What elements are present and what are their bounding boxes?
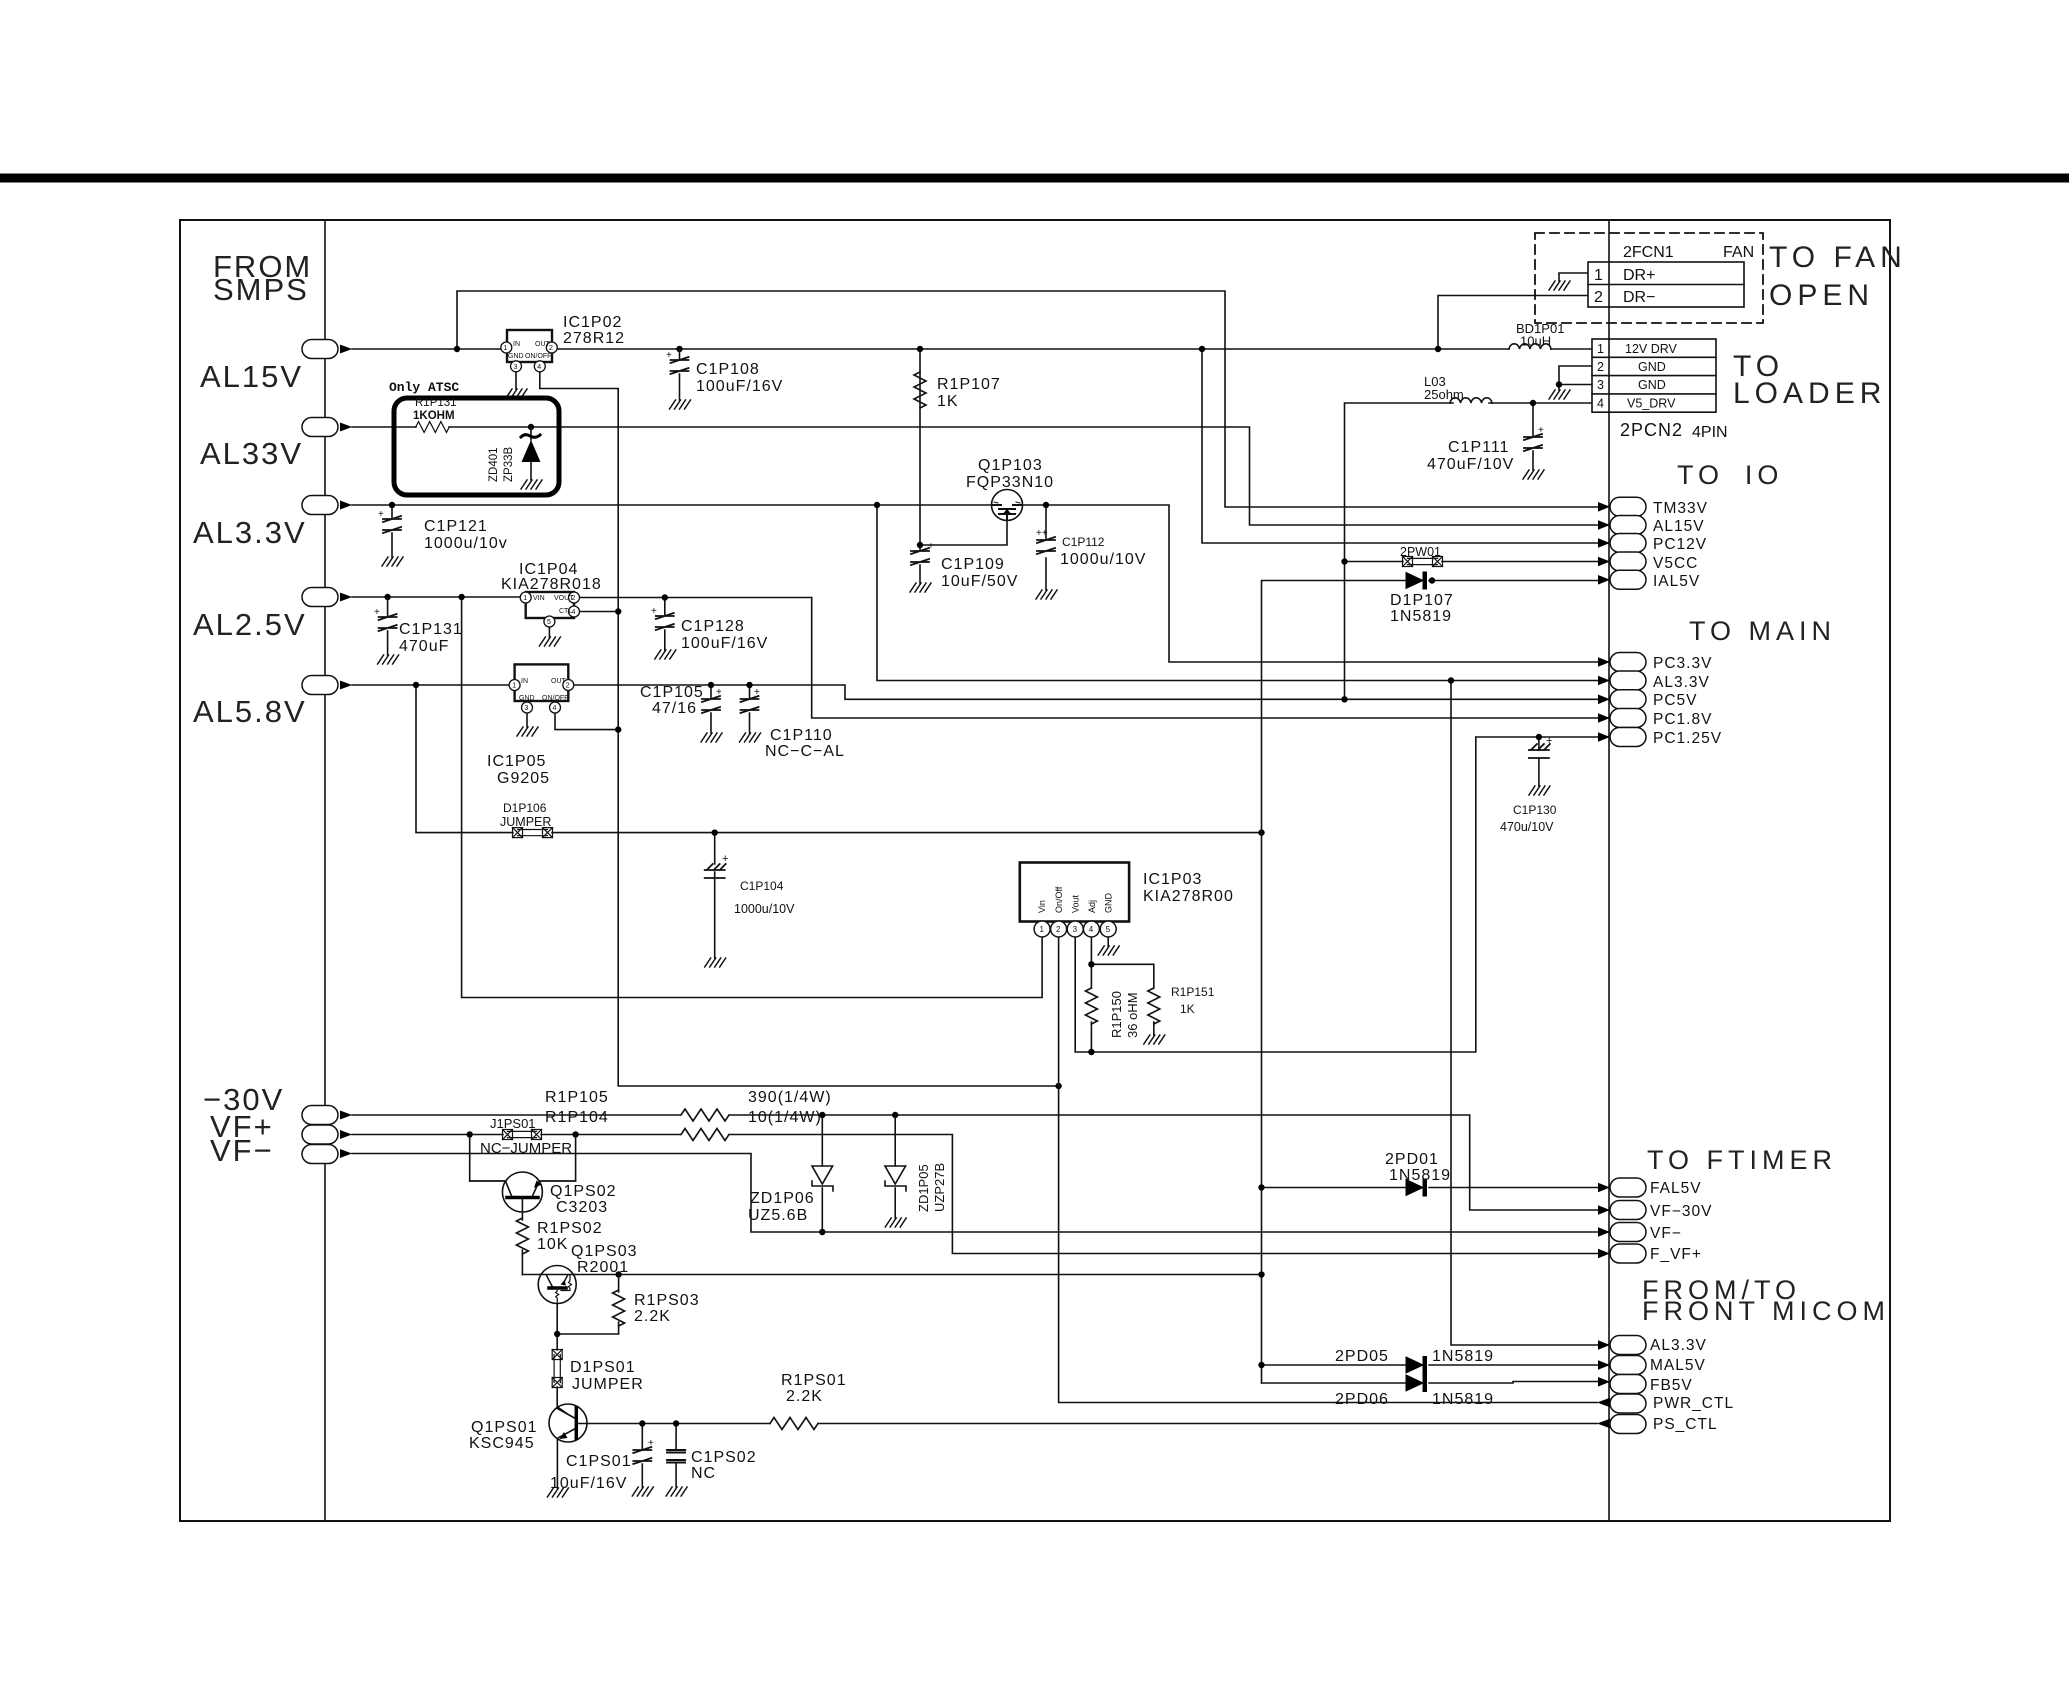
svg-text:ZD1P05: ZD1P05	[916, 1164, 931, 1212]
wire AL3.3V rail	[352, 349, 1598, 1345]
resistor R1PS02	[516, 1218, 528, 1254]
label IC1P04	[501, 561, 602, 593]
ground C1P105	[701, 733, 722, 742]
connector PC3.3V oval	[1598, 653, 1712, 673]
svg-text:JUMPER: JUMPER	[500, 815, 551, 829]
svg-text:PC3.3V: PC3.3V	[1653, 655, 1712, 672]
svg-text:C3203: C3203	[556, 1199, 608, 1216]
svg-text:+: +	[374, 607, 380, 618]
svg-text:1: 1	[504, 345, 508, 352]
svg-text:R1P104: R1P104	[545, 1109, 609, 1126]
svg-text:2PD01: 2PD01	[1385, 1151, 1439, 1168]
connector PWR_CTL oval	[1597, 1394, 1734, 1413]
ground fan DR+	[1549, 281, 1570, 290]
svg-text:25ohm: 25ohm	[1424, 387, 1464, 402]
svg-text:AL33V: AL33V	[200, 436, 303, 471]
svg-text:2PD06: 2PD06	[1335, 1391, 1389, 1408]
wire Q1PS02 base/emitter	[470, 1135, 576, 1275]
wire 2PD01 FAL5V	[1262, 1187, 1599, 1189]
svg-text:2.2K: 2.2K	[634, 1308, 671, 1325]
svg-text:AL15V: AL15V	[1653, 518, 1705, 535]
label D1P107	[1390, 592, 1454, 625]
wire fan DR+ ground	[1559, 273, 1588, 281]
junction AL3.3V nodes	[389, 502, 395, 508]
label C1P128	[681, 618, 768, 652]
svg-text:47/16: 47/16	[652, 700, 697, 717]
label Q1PS01	[469, 1419, 537, 1452]
capacitor C1P110	[741, 687, 761, 713]
svg-text:UZ5.6B: UZ5.6B	[748, 1207, 808, 1224]
svg-text:R2001: R2001	[577, 1259, 629, 1276]
connector FAL5V oval	[1598, 1178, 1702, 1197]
IC regulator IC1P03	[1020, 863, 1129, 938]
label Only ATSC	[389, 380, 459, 395]
svg-text:GND: GND	[1638, 360, 1666, 374]
svg-text:FAN: FAN	[1723, 244, 1754, 261]
svg-text:5: 5	[1106, 925, 1111, 934]
capacitor C1P130	[1529, 735, 1553, 758]
label R1P131	[413, 397, 457, 422]
junction AL5.8V nodes	[413, 682, 419, 688]
svg-text:D1P106: D1P106	[503, 801, 547, 815]
svg-text:2PD05: 2PD05	[1335, 1348, 1389, 1365]
ground C1P111	[1523, 470, 1544, 479]
connector IAL5V oval	[1598, 570, 1700, 590]
transistor Q1P103 MOSFET	[992, 490, 1023, 521]
svg-text:2FCN1: 2FCN1	[1623, 244, 1674, 261]
resistor R1P104	[681, 1129, 729, 1141]
svg-text:2.2K: 2.2K	[786, 1388, 823, 1405]
wire Q1PS01 collector / PS_CTL	[587, 1424, 1597, 1488]
wire AL2.5V rail	[352, 597, 1598, 998]
svg-text:+: +	[651, 606, 657, 617]
wire ON/OFF control bus	[540, 366, 1059, 1086]
connector AL2.5V oval	[302, 588, 352, 607]
label R1P104	[545, 1109, 822, 1126]
svg-text:UZP27B: UZP27B	[932, 1163, 947, 1212]
svg-text:VF−30V: VF−30V	[1650, 1203, 1712, 1220]
svg-text:DR−: DR−	[1623, 289, 1655, 306]
label ZD401 rotated	[488, 447, 515, 482]
svg-text:4: 4	[553, 705, 557, 712]
title TO IO	[1677, 460, 1783, 490]
label 2PD05	[1335, 1348, 1494, 1365]
svg-text:CTL: CTL	[559, 608, 572, 615]
resistor R1PS03	[613, 1290, 625, 1326]
label L03	[1424, 374, 1464, 402]
rail labels left	[200, 359, 303, 394]
label IC1P02	[563, 314, 625, 347]
svg-text:R1PS01: R1PS01	[781, 1372, 847, 1389]
capacitor C1P104	[705, 853, 729, 878]
svg-text:R1PS03: R1PS03	[634, 1292, 700, 1309]
svg-text:VOUT: VOUT	[554, 595, 574, 602]
connector TM33V oval	[1598, 497, 1708, 517]
wire zener ZD1P06 leads	[821, 1115, 823, 1232]
ground loader GND pins	[1549, 390, 1570, 399]
svg-text:IC1P03: IC1P03	[1143, 871, 1202, 888]
label IC1P05	[487, 753, 550, 787]
connector AL5.8V oval	[302, 676, 352, 695]
svg-text:AL15V: AL15V	[200, 359, 303, 394]
svg-text:AL2.5V: AL2.5V	[193, 607, 307, 642]
ground IC1P03 pin5	[1098, 946, 1119, 955]
fan dashed box	[1535, 233, 1763, 323]
svg-text:1: 1	[512, 683, 516, 690]
svg-text:2PW01: 2PW01	[1400, 545, 1441, 559]
connector AL3.3V micom oval	[1598, 1336, 1707, 1355]
svg-text:+: +	[722, 853, 728, 865]
label R1PS02	[537, 1220, 603, 1253]
label R1PS03	[634, 1292, 700, 1325]
schematic outer border	[180, 220, 1890, 1521]
zener ZD1P06	[812, 1166, 833, 1191]
svg-text:5: 5	[547, 619, 551, 626]
junction control bus nodes	[615, 608, 621, 614]
svg-text:G9205: G9205	[497, 770, 550, 787]
svg-text:IC1P05: IC1P05	[487, 753, 546, 770]
wire IC1P03 pins	[1059, 737, 1598, 1403]
left column divider	[324, 220, 326, 1521]
svg-text:+: +	[378, 509, 384, 520]
svg-text:2: 2	[1597, 360, 1604, 374]
capacitor C1PS02	[667, 1450, 685, 1463]
svg-text:+: +	[716, 687, 722, 698]
connector -30V oval	[302, 1106, 352, 1125]
svg-text:R1P150: R1P150	[1109, 991, 1124, 1038]
capacitor C1PS01	[633, 1438, 654, 1464]
label 2PD06	[1335, 1391, 1494, 1408]
svg-text:VF−: VF−	[210, 1133, 274, 1168]
svg-text:3: 3	[1073, 925, 1078, 934]
svg-text:4: 4	[1089, 925, 1094, 934]
label R1P151	[1171, 985, 1215, 1016]
capacitor C1P111	[1524, 425, 1544, 451]
capacitor C1P131	[374, 607, 397, 631]
label ZD1P06	[748, 1190, 815, 1224]
title TO LOADER	[1733, 350, 1886, 410]
svg-text:+: +	[1546, 735, 1552, 747]
wire 2PD06 FB5V	[1262, 1382, 1599, 1384]
right column divider	[1608, 220, 1610, 1521]
module Only ATSC box	[394, 398, 559, 495]
wire Q1PS03 emitter line	[522, 1274, 1261, 1276]
svg-text:C1P109: C1P109	[941, 556, 1005, 573]
connector V5CC oval	[1598, 552, 1698, 572]
label C1PS02	[691, 1449, 757, 1482]
connector AL33V oval	[302, 418, 352, 437]
svg-text:1: 1	[1040, 925, 1045, 934]
wire AL15V rail	[352, 291, 1598, 543]
svg-text:DR+: DR+	[1623, 267, 1655, 284]
svg-text:IN: IN	[513, 341, 520, 348]
ground Q1PS01 emitter	[547, 1488, 568, 1497]
ground IC1P02 pin3	[506, 389, 527, 398]
svg-text:10(1/4W): 10(1/4W)	[748, 1109, 822, 1126]
svg-text:KSC945: KSC945	[469, 1435, 535, 1452]
junction V5 nodes	[1341, 696, 1347, 702]
svg-text:GND: GND	[519, 695, 535, 702]
label 2FCN1 / FAN	[1623, 244, 1754, 261]
title TO MAIN	[1689, 616, 1836, 646]
label 2PD01	[1385, 1151, 1451, 1184]
svg-text:SMPS: SMPS	[213, 272, 309, 307]
wire VF- rail	[352, 1154, 1598, 1233]
ground C1P110	[740, 733, 761, 742]
capacitor C1P121	[378, 509, 401, 533]
resistor R1PS01	[770, 1418, 818, 1430]
ground C1PS02	[666, 1487, 687, 1496]
svg-text:470uF: 470uF	[399, 638, 449, 655]
svg-text:2: 2	[1056, 925, 1061, 934]
svg-text:2PCN2: 2PCN2	[1620, 420, 1683, 440]
svg-text:10uF/16V: 10uF/16V	[550, 1475, 627, 1492]
svg-text:Q1P103: Q1P103	[978, 457, 1043, 474]
top black divider bar	[0, 174, 2069, 183]
resistor R1P105	[681, 1109, 729, 1121]
title TO FAN OPEN	[1769, 241, 1907, 312]
label IC1P03	[1143, 871, 1234, 905]
label fan pins	[1594, 267, 1655, 306]
wire IAL5V bus	[1262, 581, 1599, 1384]
fuse 2PW01	[1403, 557, 1443, 567]
ground C1P108	[670, 400, 691, 409]
transistor Q1PS03	[538, 1266, 576, 1304]
svg-text:1000u/10v: 1000u/10v	[424, 535, 508, 552]
label C1P105	[640, 684, 704, 717]
svg-text:1K: 1K	[1180, 1002, 1195, 1016]
ground C1P121	[382, 557, 403, 566]
label C1P130	[1500, 803, 1557, 834]
wire Q1PS01 emitter gnd	[556, 1438, 558, 1488]
svg-text:470uF/10V: 470uF/10V	[1427, 456, 1514, 473]
connector PC1.25V oval	[1598, 728, 1722, 748]
svg-text:D1P107: D1P107	[1390, 592, 1454, 609]
svg-text:ZD1P06: ZD1P06	[750, 1190, 815, 1207]
svg-text:FB5V: FB5V	[1650, 1377, 1693, 1394]
svg-text:1: 1	[523, 595, 527, 602]
ground C1P128	[655, 650, 676, 659]
connector FB5V oval	[1598, 1375, 1693, 1395]
svg-text:PC1.25V: PC1.25V	[1653, 730, 1722, 747]
connector VF- oval	[1598, 1223, 1682, 1243]
capacitor C1P112	[1036, 528, 1055, 554]
connector PC5V oval	[1598, 690, 1698, 709]
svg-text:1N5819: 1N5819	[1432, 1348, 1494, 1365]
svg-text:Only ATSC: Only ATSC	[389, 380, 459, 395]
wire AL5.8V rail	[352, 685, 1598, 958]
svg-text:AL5.8V: AL5.8V	[193, 694, 307, 729]
svg-text:+: +	[928, 541, 934, 552]
jumper J1PS01	[503, 1130, 542, 1140]
svg-text:VIN: VIN	[533, 595, 545, 602]
zener ZD401	[521, 427, 541, 480]
connector PC1.8V oval	[1598, 709, 1712, 729]
svg-text:ZD401: ZD401	[488, 447, 500, 482]
wire IC1P02 gnd pin	[515, 372, 517, 389]
svg-text:ZP33B: ZP33B	[503, 447, 515, 482]
svg-text:Vout: Vout	[1071, 894, 1081, 913]
svg-text:1KOHM: 1KOHM	[413, 410, 455, 422]
svg-text:PC1.8V: PC1.8V	[1653, 711, 1712, 728]
svg-text:Q1PS03: Q1PS03	[571, 1243, 637, 1260]
connector VF- oval	[302, 1145, 352, 1164]
svg-text:NC: NC	[691, 1465, 716, 1482]
wire zener ZD1P05 leads	[894, 1115, 896, 1218]
svg-text:++: ++	[1036, 528, 1048, 539]
ground C1P112	[1036, 590, 1057, 599]
zener ZD1P05	[885, 1166, 906, 1191]
svg-text:C1PS02: C1PS02	[691, 1449, 757, 1466]
svg-text:R1P107: R1P107	[937, 376, 1001, 393]
wire V5 loader net	[1345, 403, 1599, 699]
svg-text:PWR_CTL: PWR_CTL	[1653, 1395, 1734, 1412]
resistor R1P150	[1085, 988, 1097, 1024]
wire 2PD05 MAL5V	[1262, 1364, 1599, 1366]
svg-text:10uH: 10uH	[1520, 334, 1551, 349]
svg-text:278R12: 278R12	[563, 330, 625, 347]
label FROM SMPS	[213, 249, 312, 307]
capacitor C1P128	[651, 606, 674, 630]
svg-text:TM33V: TM33V	[1653, 500, 1708, 517]
ground ZD1P05	[885, 1218, 906, 1227]
svg-text:IN: IN	[521, 678, 528, 685]
svg-text:R1P131: R1P131	[415, 397, 457, 409]
ground C1P130	[1529, 786, 1550, 795]
IC regulator IC1P02	[501, 330, 558, 372]
svg-text:470u/10V: 470u/10V	[1500, 820, 1554, 834]
label 2PW01	[1400, 545, 1441, 559]
svg-text:Q1PS01: Q1PS01	[471, 1419, 537, 1436]
ground ZD401	[521, 480, 542, 489]
svg-text:F_VF+: F_VF+	[1650, 1246, 1702, 1263]
diode 2PD05	[1406, 1357, 1427, 1374]
label C1P112	[1060, 535, 1146, 568]
ground R1P151	[1144, 1035, 1165, 1044]
connector F_VF+ oval	[1598, 1244, 1702, 1263]
svg-text:1N5819: 1N5819	[1390, 608, 1452, 625]
resistor R1P151	[1148, 988, 1160, 1024]
svg-text:10K: 10K	[537, 1236, 568, 1253]
connector PS_CTL oval	[1597, 1415, 1718, 1434]
svg-text:NC−JUMPER: NC−JUMPER	[480, 1140, 572, 1157]
ground IC1P05 pin3	[517, 727, 538, 736]
inductor L03	[1450, 398, 1492, 403]
svg-text:Adj: Adj	[1087, 900, 1097, 913]
wire -30V rail	[352, 1115, 1598, 1210]
svg-text:PC12V: PC12V	[1653, 536, 1707, 553]
svg-text:ON/OFF: ON/OFF	[525, 353, 551, 360]
svg-text:PC5V: PC5V	[1653, 692, 1698, 709]
label C1P104	[734, 879, 795, 916]
svg-text:R1PS02: R1PS02	[537, 1220, 603, 1237]
svg-text:On/Off: On/Off	[1054, 886, 1064, 913]
diode D1P107	[1406, 572, 1435, 589]
label BD1P01	[1516, 321, 1564, 349]
svg-text:V5CC: V5CC	[1653, 555, 1698, 572]
connector VF+ oval	[302, 1125, 352, 1144]
label R1PS01	[781, 1372, 847, 1405]
connector PC12V oval	[1598, 534, 1707, 554]
svg-text:36 oHM: 36 oHM	[1125, 992, 1140, 1038]
svg-text:10uF/50V: 10uF/50V	[941, 573, 1018, 590]
svg-text:390(1/4W): 390(1/4W)	[748, 1089, 832, 1106]
ground C1P109	[910, 583, 931, 592]
svg-text:J1PS01: J1PS01	[490, 1116, 536, 1131]
svg-text:IAL5V: IAL5V	[1653, 573, 1700, 590]
svg-text:PS_CTL: PS_CTL	[1653, 1416, 1718, 1433]
junction AL2.5V nodes	[384, 594, 390, 600]
svg-text:3: 3	[525, 705, 529, 712]
svg-text:TO FAN: TO FAN	[1769, 241, 1907, 274]
svg-text:Vin: Vin	[1037, 900, 1047, 913]
svg-text:C1P130: C1P130	[1513, 803, 1557, 817]
svg-text:AL3.3V: AL3.3V	[193, 515, 307, 550]
capacitor C1P108	[666, 349, 689, 400]
svg-text:100uF/16V: 100uF/16V	[696, 378, 783, 395]
ground IC1P04	[539, 637, 560, 646]
label J1PS01	[480, 1116, 572, 1157]
svg-text:C1PS01: C1PS01	[566, 1453, 632, 1470]
connector AL15V oval	[302, 340, 352, 359]
svg-text:NC−C−AL: NC−C−AL	[765, 743, 845, 760]
svg-text:OUT: OUT	[551, 678, 567, 685]
label R1P150 rotated	[1109, 991, 1140, 1038]
loader connector table 2PCN2	[1592, 339, 1716, 412]
resistor R1P107	[914, 372, 926, 408]
svg-text:100uF/16V: 100uF/16V	[681, 635, 768, 652]
svg-text:TO FTIMER: TO FTIMER	[1647, 1145, 1837, 1175]
svg-text:C1P121: C1P121	[424, 518, 488, 535]
label Q1PS02	[550, 1183, 616, 1216]
svg-text:C1P111: C1P111	[1448, 439, 1509, 456]
svg-text:1000u/10V: 1000u/10V	[1060, 551, 1146, 568]
label loader pins	[1597, 342, 1678, 411]
svg-text:C1P110: C1P110	[770, 727, 833, 744]
svg-text:AL3.3V: AL3.3V	[1650, 1337, 1707, 1354]
transistor Q1PS01	[549, 1404, 587, 1442]
svg-text:1K: 1K	[937, 393, 959, 410]
wire R1PS03 branch	[557, 1275, 618, 1407]
svg-text:V5_DRV: V5_DRV	[1627, 397, 1676, 411]
label C1P111	[1427, 439, 1514, 473]
svg-text:1: 1	[1594, 267, 1603, 284]
svg-text:GND: GND	[1104, 893, 1114, 914]
label C1P109	[941, 556, 1018, 590]
diode 2PD06	[1406, 1375, 1427, 1392]
label R1P107	[937, 376, 1001, 410]
jumper D1PS01	[552, 1350, 562, 1388]
wire loader GND pins	[1559, 366, 1592, 390]
svg-text:VF−: VF−	[1650, 1225, 1682, 1242]
junction AL33V node	[528, 424, 534, 430]
svg-text:FRONT MICOM: FRONT MICOM	[1642, 1296, 1890, 1326]
svg-text:OPEN: OPEN	[1769, 279, 1874, 312]
connector AL3.3V oval	[302, 496, 352, 515]
svg-text:+: +	[1538, 425, 1544, 436]
transistor Q1PS02	[470, 1172, 576, 1212]
IC regulator IC1P05	[509, 664, 574, 713]
label C1P121	[424, 518, 508, 552]
svg-text:R1P105: R1P105	[545, 1089, 609, 1106]
svg-text:4PIN: 4PIN	[1692, 424, 1728, 441]
svg-text:4: 4	[1597, 397, 1604, 411]
svg-text:+: +	[754, 687, 760, 698]
wire AL33V rail	[352, 427, 1598, 525]
title TO FTIMER	[1647, 1145, 1837, 1175]
label Q1PS03	[571, 1243, 637, 1276]
svg-text:D1PS01: D1PS01	[570, 1359, 636, 1376]
